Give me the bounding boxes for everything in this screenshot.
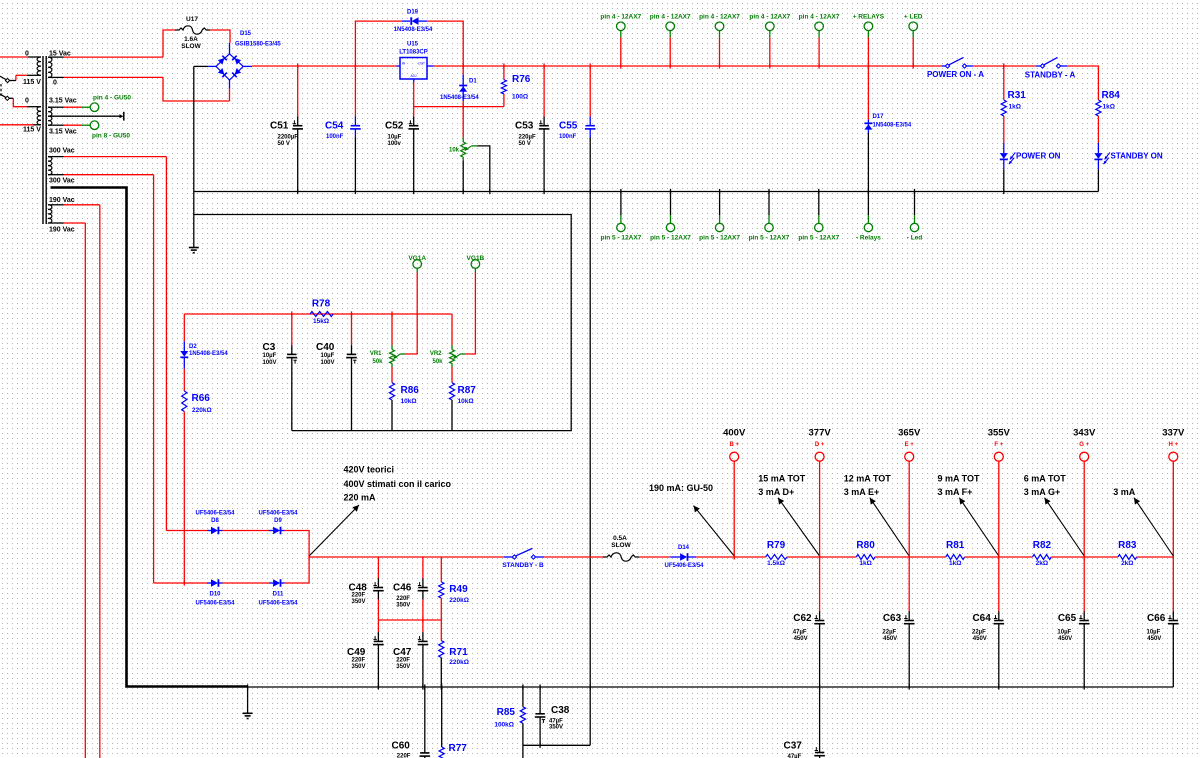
svg-text:pin 5 - 12AX7: pin 5 - 12AX7 (699, 235, 740, 242)
svg-text:pin 4 - GU50: pin 4 - GU50 (93, 95, 131, 102)
svg-text:450V: 450V (1147, 636, 1161, 642)
svg-text:220F: 220F (396, 596, 410, 602)
svg-text:365V: 365V (898, 427, 921, 438)
svg-text:pin 5 - 12AX7: pin 5 - 12AX7 (749, 235, 790, 242)
svg-text:R76: R76 (512, 74, 531, 85)
svg-text:C62: C62 (793, 613, 812, 624)
svg-text:R78: R78 (312, 299, 331, 310)
svg-text:R82: R82 (1033, 540, 1052, 551)
svg-text:SLOW: SLOW (611, 542, 631, 549)
svg-text:pin 5 - 12AX7: pin 5 - 12AX7 (600, 235, 641, 242)
svg-text:pin 8 - GU50: pin 8 - GU50 (92, 133, 130, 140)
svg-text:STANDBY ON: STANDBY ON (1111, 151, 1163, 160)
svg-text:D17: D17 (873, 114, 885, 120)
svg-text:10µF: 10µF (1147, 630, 1161, 636)
svg-text:220 mA: 220 mA (344, 493, 377, 503)
svg-text:U17: U17 (186, 16, 198, 23)
svg-text:R80: R80 (856, 540, 875, 551)
svg-text:1.5kΩ: 1.5kΩ (767, 560, 785, 567)
svg-text:450V: 450V (794, 636, 808, 642)
svg-text:UF5406-E3/54: UF5406-E3/54 (258, 511, 298, 517)
svg-text:100nF: 100nF (326, 134, 344, 140)
svg-text:10µF: 10µF (388, 135, 402, 141)
svg-text:1N5408-E3/54: 1N5408-E3/54 (440, 95, 479, 101)
svg-text:VR1: VR1 (370, 351, 382, 357)
svg-text:10kΩ: 10kΩ (401, 398, 417, 405)
svg-text:0: 0 (25, 51, 29, 58)
svg-text:1kΩ: 1kΩ (1009, 104, 1021, 111)
svg-text:10µF: 10µF (1057, 630, 1071, 636)
svg-text:47µF: 47µF (788, 754, 802, 758)
svg-text:OUT: OUT (418, 62, 425, 66)
svg-text:D1: D1 (469, 79, 477, 85)
svg-text:1N5408-E3/54: 1N5408-E3/54 (873, 123, 912, 129)
svg-text:300 Vac: 300 Vac (49, 148, 75, 155)
svg-text:220µF: 220µF (519, 135, 536, 141)
svg-text:R77: R77 (449, 743, 468, 754)
svg-text:220F: 220F (396, 658, 410, 664)
svg-text:343V: 343V (1073, 427, 1096, 438)
svg-text:337V: 337V (1162, 427, 1185, 438)
svg-text:220F: 220F (352, 658, 366, 664)
svg-text:SLOW: SLOW (181, 43, 201, 50)
svg-text:R79: R79 (767, 540, 786, 551)
svg-text:R71: R71 (449, 647, 468, 658)
svg-text:pin 5 - 12AX7: pin 5 - 12AX7 (650, 235, 691, 242)
svg-text:190 Vac: 190 Vac (49, 227, 75, 234)
svg-text:350V: 350V (352, 599, 366, 605)
svg-text:C52: C52 (385, 121, 404, 132)
svg-text:15kΩ: 15kΩ (313, 318, 329, 325)
svg-text:450V: 450V (1058, 636, 1072, 642)
svg-text:1kΩ: 1kΩ (949, 560, 961, 567)
svg-text:350V: 350V (396, 602, 410, 608)
svg-text:350V: 350V (352, 664, 366, 670)
svg-text:R81: R81 (946, 540, 965, 551)
svg-text:UF5406-E3/54: UF5406-E3/54 (195, 600, 235, 606)
svg-text:C51: C51 (270, 121, 289, 132)
svg-text:pin 5 - 12AX7: pin 5 - 12AX7 (798, 235, 839, 242)
svg-text:100nF: 100nF (559, 134, 577, 140)
svg-text:2kΩ: 2kΩ (1036, 560, 1048, 567)
svg-text:47µF: 47µF (549, 718, 563, 724)
svg-text:C60: C60 (392, 741, 411, 752)
svg-text:3 mA E+: 3 mA E+ (844, 487, 879, 497)
svg-text:220kΩ: 220kΩ (192, 407, 212, 414)
svg-text:E +: E + (905, 442, 915, 448)
svg-text:0: 0 (53, 80, 57, 87)
svg-text:C53: C53 (515, 121, 534, 132)
svg-text:3 mA: 3 mA (1113, 487, 1136, 497)
svg-text:STANDBY - B: STANDBY - B (502, 562, 544, 569)
svg-text:STANDBY - A: STANDBY - A (1025, 70, 1076, 79)
svg-text:VR2: VR2 (430, 351, 442, 357)
svg-text:pin 4 - 12AX7: pin 4 - 12AX7 (749, 13, 790, 20)
svg-text:C54: C54 (325, 121, 344, 132)
svg-text:220kΩ: 220kΩ (449, 597, 469, 604)
svg-text:400V stimati con il carico: 400V stimati con il carico (344, 479, 452, 489)
svg-text:ADJ: ADJ (410, 74, 416, 78)
svg-text:D10: D10 (209, 592, 221, 598)
svg-text:22µF: 22µF (972, 630, 986, 636)
svg-text:450V: 450V (883, 636, 897, 642)
svg-text:VG1A: VG1A (408, 255, 426, 262)
svg-text:100Ω: 100Ω (512, 94, 528, 101)
svg-text:D2: D2 (189, 344, 197, 350)
svg-text:3.15 Vac: 3.15 Vac (49, 98, 77, 105)
svg-text:C38: C38 (551, 705, 570, 716)
svg-text:220F: 220F (397, 754, 411, 758)
svg-text:D11: D11 (273, 592, 284, 598)
svg-text:R87: R87 (458, 385, 477, 396)
svg-text:+ LED: + LED (904, 13, 923, 20)
svg-text:220F: 220F (352, 593, 366, 599)
svg-text:350V: 350V (549, 725, 563, 731)
svg-text:C55: C55 (559, 121, 578, 132)
svg-text:F +: F + (994, 442, 1003, 448)
svg-text:3 mA G+: 3 mA G+ (1024, 487, 1060, 497)
svg-text:1N5408-E3/54: 1N5408-E3/54 (394, 27, 433, 33)
svg-text:15 Vac: 15 Vac (49, 51, 71, 58)
svg-text:2kΩ: 2kΩ (1121, 560, 1133, 567)
svg-text:pin 4 - 12AX7: pin 4 - 12AX7 (600, 13, 641, 20)
svg-text:pin 4 - 12AX7: pin 4 - 12AX7 (699, 13, 740, 20)
svg-text:100v: 100v (388, 141, 402, 147)
svg-text:C37: C37 (784, 741, 803, 752)
svg-text:3 mA F+: 3 mA F+ (938, 487, 973, 497)
svg-text:220kΩ: 220kΩ (449, 659, 469, 666)
svg-text:R31: R31 (1008, 90, 1027, 101)
svg-text:UF5406-E3/54: UF5406-E3/54 (258, 600, 298, 606)
svg-text:400V: 400V (723, 427, 746, 438)
svg-text:VG1B: VG1B (467, 255, 485, 262)
svg-text:C40: C40 (316, 342, 335, 353)
svg-text:50 V: 50 V (519, 141, 531, 147)
svg-text:GSIB1580-E3/45: GSIB1580-E3/45 (235, 42, 281, 48)
svg-text:6 mA TOT: 6 mA TOT (1024, 473, 1067, 483)
svg-text:0: 0 (25, 98, 29, 105)
svg-text:POWER ON - A: POWER ON - A (927, 70, 984, 79)
svg-text:D19: D19 (407, 10, 419, 16)
svg-text:LT1083CP: LT1083CP (399, 50, 428, 56)
svg-text:D14: D14 (678, 545, 690, 551)
svg-text:UF5406-E3/54: UF5406-E3/54 (664, 563, 704, 569)
svg-text:C65: C65 (1058, 613, 1077, 624)
svg-text:2200µF: 2200µF (278, 135, 299, 141)
svg-text:50 V: 50 V (278, 141, 290, 147)
svg-text:C63: C63 (883, 613, 902, 624)
svg-text:50k: 50k (372, 359, 383, 365)
svg-text:10µF: 10µF (321, 353, 335, 359)
svg-text:1N5408-E3/54: 1N5408-E3/54 (189, 351, 228, 357)
svg-text:R86: R86 (401, 385, 420, 396)
svg-text:3.15 Vac: 3.15 Vac (49, 129, 77, 136)
svg-text:+ RELAYS: + RELAYS (853, 13, 885, 20)
svg-text:9 mA TOT: 9 mA TOT (938, 473, 981, 483)
svg-text:C46: C46 (393, 583, 412, 594)
svg-text:10k: 10k (449, 148, 460, 154)
svg-text:POWER ON: POWER ON (1016, 151, 1061, 160)
svg-text:UF5406-E3/54: UF5406-E3/54 (195, 511, 235, 517)
svg-text:1kΩ: 1kΩ (1103, 104, 1115, 111)
svg-text:U15: U15 (407, 42, 419, 48)
svg-text:D8: D8 (211, 518, 219, 524)
svg-text:15 mA TOT: 15 mA TOT (758, 473, 806, 483)
svg-text:R49: R49 (449, 584, 468, 595)
svg-text:22µF: 22µF (882, 630, 896, 636)
svg-text:R83: R83 (1118, 540, 1137, 551)
svg-text:C47: C47 (393, 647, 412, 658)
svg-text:D9: D9 (274, 518, 282, 524)
svg-text:377V: 377V (809, 427, 832, 438)
svg-text:H +: H + (1169, 442, 1179, 448)
svg-text:350V: 350V (396, 664, 410, 670)
svg-text:1kΩ: 1kΩ (859, 560, 871, 567)
svg-text:355V: 355V (988, 427, 1011, 438)
svg-text:C49: C49 (347, 647, 366, 658)
svg-text:115 V: 115 V (23, 79, 41, 86)
svg-text:D15: D15 (240, 31, 252, 37)
svg-text:C64: C64 (972, 613, 991, 624)
svg-text:C3: C3 (263, 342, 276, 353)
svg-text:G +: G + (1079, 442, 1089, 448)
svg-text:C66: C66 (1147, 613, 1166, 624)
svg-text:1.6A: 1.6A (184, 36, 198, 43)
svg-text:0.5A: 0.5A (613, 535, 627, 542)
svg-text:10kΩ: 10kΩ (458, 398, 474, 405)
svg-text:12 mA TOT: 12 mA TOT (844, 473, 892, 483)
svg-text:100V: 100V (263, 360, 277, 366)
svg-text:3 mA D+: 3 mA D+ (758, 487, 794, 497)
svg-text:D +: D + (815, 442, 825, 448)
svg-text:300 Vac: 300 Vac (49, 178, 75, 185)
svg-text:- Relays: - Relays (856, 235, 881, 242)
svg-text:pin 4 - 12AX7: pin 4 - 12AX7 (799, 13, 840, 20)
svg-text:R84: R84 (1102, 90, 1121, 101)
svg-text:R66: R66 (192, 393, 211, 404)
svg-text:190 mA: GU-50: 190 mA: GU-50 (649, 483, 713, 493)
svg-text:B +: B + (729, 442, 739, 448)
svg-text:100V: 100V (321, 360, 335, 366)
svg-text:47µF: 47µF (793, 630, 807, 636)
svg-text:100kΩ: 100kΩ (494, 722, 514, 729)
svg-text:50k: 50k (432, 359, 443, 365)
svg-text:190 Vac: 190 Vac (49, 197, 75, 204)
svg-text:420V teorici: 420V teorici (344, 465, 395, 475)
svg-text:115 V: 115 V (23, 127, 41, 134)
svg-text:450V: 450V (973, 636, 987, 642)
svg-text:pin 4 - 12AX7: pin 4 - 12AX7 (650, 13, 691, 20)
svg-text:10µF: 10µF (263, 353, 277, 359)
svg-text:- Led: - Led (907, 235, 923, 242)
svg-text:R85: R85 (497, 707, 516, 718)
